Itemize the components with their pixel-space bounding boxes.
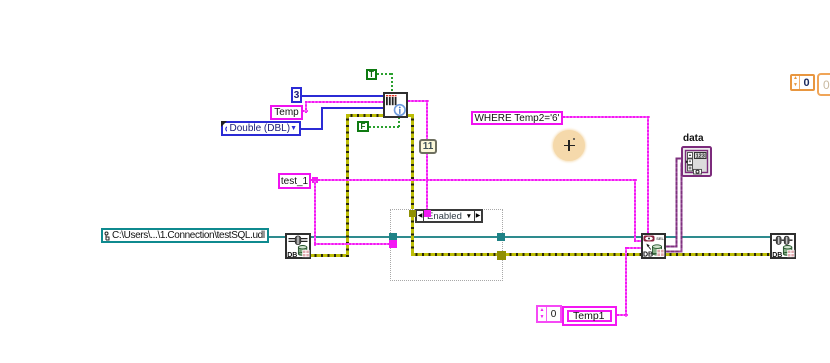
wire: blue ring DBL to insert node xyxy=(321,107,383,109)
wire: blue numeric 3 to insert node xyxy=(301,95,383,97)
wire: string pink Temp to insert node xyxy=(305,101,383,103)
wire: error olive select node to close node xyxy=(665,253,770,256)
data indicator label xyxy=(683,133,704,144)
string constant WHERE Temp2='6' xyxy=(471,111,563,125)
numeric constant 3 xyxy=(291,87,302,103)
wire: green boolean T down to insert node xyxy=(391,73,393,92)
tunnel: teal on structure left xyxy=(389,233,397,241)
wire: error olive inside structure vertical xyxy=(411,216,414,256)
svg-text:DB: DB xyxy=(643,252,653,259)
insert node U1 (table info VI) xyxy=(383,92,408,118)
wire: error olive structure to select node xyxy=(505,253,641,256)
tunnel: teal on structure right xyxy=(497,233,505,241)
wire: error olive open node to riser xyxy=(310,254,349,257)
svg-text:SEL: SEL xyxy=(656,236,664,241)
wire: teal connection inside structure xyxy=(397,236,497,238)
wire: green boolean T horizontal xyxy=(377,73,392,75)
wire: string pink Temp1 stub xyxy=(617,314,628,316)
svg-text:123: 123 xyxy=(696,154,705,160)
selector label: Enabled xyxy=(415,209,483,223)
wire: error olive riser up to insert node xyxy=(346,114,349,257)
string control Temp1 xyxy=(562,306,617,326)
free label 11 xyxy=(419,139,437,154)
wire: blue ring DBL stub xyxy=(301,128,323,130)
wire: string pink test_1 horizontal xyxy=(311,179,637,181)
wire: string pink Temp1 into select node xyxy=(627,247,641,249)
wire: string pink WHERE horizontal xyxy=(563,116,650,118)
wire: string pink insert node output xyxy=(408,100,429,102)
wire: teal connection structure right tunnel to select node xyxy=(504,236,641,238)
ring constant Double (DBL) xyxy=(221,121,301,136)
cursor plus xyxy=(564,145,575,147)
data array indicator icon xyxy=(681,146,712,177)
junction: test_1 wire branch xyxy=(312,177,318,183)
wire: string pink Temp riser xyxy=(305,101,307,113)
wire: green boolean F horizontal xyxy=(369,126,400,128)
wire: green boolean F up to insert node xyxy=(398,117,400,128)
wire: string pink Temp stub xyxy=(302,110,308,112)
string constant test_1 xyxy=(278,173,311,189)
tunnel: magenta string on structure top xyxy=(424,210,431,217)
select data node xyxy=(641,233,666,259)
wire: teal connection select node to close node xyxy=(665,236,770,238)
wire: string pink Temp1 riser xyxy=(625,247,627,317)
close connection node xyxy=(770,233,796,259)
path constant testSQL.udl xyxy=(101,228,269,243)
wire: string pink test_1 into select node xyxy=(634,240,641,242)
string constant Temp xyxy=(270,105,303,120)
wire: error olive out of insert node right xyxy=(408,114,414,117)
wire: string pink down to structure tunnel xyxy=(426,100,428,209)
wire: error olive inside structure horizontal xyxy=(411,253,497,256)
svg-text:DB: DB xyxy=(772,252,782,259)
structure: diagram disable structure frame xyxy=(390,209,503,281)
wire: error olive down to structure top tunnel xyxy=(411,114,414,209)
numeric control 0 (top right, pale, clipped) xyxy=(817,73,830,96)
open connection node xyxy=(285,233,311,259)
wire: string pink test_1 down to select node xyxy=(634,179,636,242)
svg-text:DB: DB xyxy=(287,252,297,259)
wire: purple variant data select node to data indicator xyxy=(660,140,700,255)
boolean constant F xyxy=(357,121,369,132)
wire: string pink test_1 branch down xyxy=(314,179,316,246)
cursor highlight circle xyxy=(553,130,585,161)
wire: teal connection open node to structure left tunnel xyxy=(310,236,390,238)
wire: teal path constant to open node xyxy=(269,236,285,238)
tunnel: olive on structure right xyxy=(497,251,506,260)
numeric constant 0 (bottom) xyxy=(536,305,562,323)
numeric control 0 (top right, dark) xyxy=(790,74,815,91)
wire: error olive into insert node left xyxy=(346,114,383,117)
tunnel: magenta on structure left xyxy=(389,240,397,248)
boolean constant T xyxy=(366,69,377,80)
wire: string pink WHERE down to select node top xyxy=(647,116,649,233)
wire: string pink test_1 branch to structure left tunnel xyxy=(314,243,390,245)
tunnel: olive error on structure top xyxy=(409,210,416,217)
wire: blue ring DBL riser xyxy=(321,107,323,130)
